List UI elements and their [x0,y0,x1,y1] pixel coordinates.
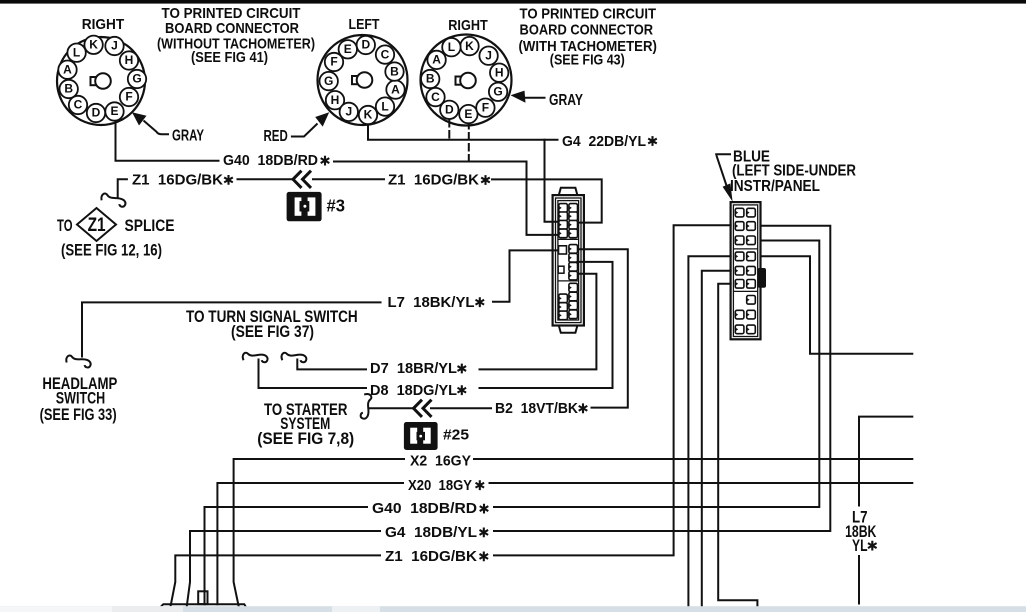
asterisk marks [224,136,876,561]
color labels [172,92,856,195]
svg-text:L7 18BK/YL: L7 18BK/YL [388,294,475,311]
connector circle left (red) [318,35,408,125]
svg-text:B2 18VT/BK: B2 18VT/BK [495,400,578,417]
wire X2 16GY [234,459,913,606]
wire L7 18BK right side vertical [859,417,912,604]
svg-text:X20 18GY: X20 18GY [408,477,472,494]
svg-text:RED: RED [264,128,288,145]
wire G40 18DB/RD lower label run to blue connector right row B [205,241,820,605]
wire X20 18GY [217,483,912,604]
wire blue connector left row D down to bottom edge [688,256,730,612]
svg-text:F: F [482,100,489,114]
center connector terminals section B [558,245,577,280]
svg-text:L: L [73,45,80,59]
svg-text:G4 18DB/YL: G4 18DB/YL [385,524,477,541]
wire blue connector right row C to right edge at y354 [761,256,913,354]
svg-text:Z1 16DG/BK: Z1 16DG/BK [385,548,477,565]
svg-text:A: A [63,62,72,76]
wire G40 18DB/RD from conn1 pin E down then right [116,121,219,161]
grommet #3 [287,192,322,221]
top border bar [0,0,1026,4]
svg-text:H: H [495,65,504,79]
svg-text:G4 22DB/YL: G4 22DB/YL [562,133,646,150]
svg-text:(SEE FIG 43): (SEE FIG 43) [550,51,625,68]
wire Z1 16DG/BK lower label run to blue connector left row A [171,225,731,606]
svg-text:G40 18DB/RD: G40 18DB/RD [372,500,477,517]
wire G4 22DB/YL from conn2 pin K [368,125,558,140]
svg-text:L: L [448,40,455,54]
keyhole center conn2 [352,72,372,88]
center connector terminals section A [559,204,578,238]
svg-text:E: E [110,104,118,118]
center connector body [553,188,584,333]
grommet #25 [404,422,438,450]
annotation headlamp switch [40,374,118,424]
svg-text:J: J [345,105,352,119]
svg-text:X2 16GY: X2 16GY [410,453,471,470]
svg-text:GRAY: GRAY [549,92,584,109]
wire blue connector left row F down then right [718,284,757,607]
svg-text:INSTR/PANEL: INSTR/PANEL [730,178,820,195]
svg-text:A: A [391,82,400,96]
leader arrow GRAY conn1 [132,112,169,134]
svg-text:GRAY: GRAY [172,128,204,145]
svg-text:(SEE FIG 41): (SEE FIG 41) [191,49,268,66]
svg-text:TO: TO [57,217,73,235]
svg-text:A: A [432,53,441,67]
connector circle right (without tach) [57,37,145,125]
annotation starter system [257,401,354,448]
svg-text:K: K [364,108,373,122]
svg-text:E: E [464,107,472,121]
svg-text:G40 18DB/RD: G40 18DB/RD [223,152,318,169]
blue connector side tab [758,268,766,288]
svg-text:B: B [426,72,435,86]
wire Z1 second label to center connector right pin row3 [492,179,602,222]
svg-text:C: C [74,98,83,112]
svg-text:H: H [125,53,134,67]
svg-text:Z1 16DG/BK: Z1 16DG/BK [132,171,223,188]
svg-text:C: C [431,90,440,104]
svg-text:C: C [381,47,390,61]
pins conn3 [421,37,508,123]
break curl end of Z1 bracket [100,193,126,207]
blue connector body [731,202,761,339]
svg-text:F: F [125,90,132,104]
wire L7 right run up into center connector middle-left square [493,250,560,301]
wire Z1 left bracket to splice [118,179,127,197]
svg-text:D: D [92,106,101,120]
svg-text:K: K [89,38,98,52]
break curl D7 wire top [282,353,307,362]
wire Z1 between label and chevron [238,178,292,180]
svg-text:RIGHT: RIGHT [448,17,488,34]
svg-text:SPLICE: SPLICE [125,217,175,235]
svg-text:H: H [331,93,340,107]
splice diamond Z1 [77,208,116,241]
break squiggle B2 wire left end [360,394,371,419]
wire G4 18DB/YL lower label run to blue connector right row A [187,226,831,606]
svg-text:(SEE FIG 7,8): (SEE FIG 7,8) [257,430,354,448]
svg-text:Z1: Z1 [88,214,106,236]
svg-text:BOARD CONNECTOR: BOARD CONNECTOR [165,20,299,37]
wire Z1 chevron to second label [313,178,384,180]
svg-text:(SEE FIG 37): (SEE FIG 37) [231,322,314,341]
svg-text:RIGHT: RIGHT [82,16,125,33]
svg-text:(SEE FIG 12, 16): (SEE FIG 12, 16) [61,242,162,260]
svg-text:TO PRINTED CIRCUIT: TO PRINTED CIRCUIT [520,6,657,23]
svg-text:G: G [324,74,333,88]
svg-text:G: G [132,72,141,86]
svg-text:B: B [390,64,399,78]
svg-text:J: J [485,48,492,62]
svg-text:K: K [465,39,474,53]
blue connector terminals [735,208,755,333]
svg-text:#3: #3 [327,195,346,215]
inline connector chevron on B2 wire [414,400,432,417]
svg-text:#25: #25 [443,426,469,443]
pins conn1 [58,36,146,123]
annotation to Z1 splice [57,217,175,259]
svg-text:BOARD CONNECTOR: BOARD CONNECTOR [520,22,654,39]
svg-text:D: D [445,103,454,117]
wire D7 18BR/YL [297,274,596,370]
connector titles [82,16,488,34]
bottom connector shell [156,604,249,612]
bottom gray bar [0,606,1026,612]
wire blue connector left row E down to bottom edge [702,271,731,612]
wire D8 18DG/YL [259,262,613,388]
wire G40 continues to center connector left pin row4 [334,162,561,235]
leader arrow RED conn2 [291,112,329,136]
svg-text:YL: YL [852,536,868,555]
svg-text:Z1 16DG/BK: Z1 16DG/BK [388,172,479,189]
dashed wire conn3 pin D to G4 line [448,120,450,139]
svg-text:LEFT: LEFT [349,16,380,33]
dashed wire conn3 pin E to G40 line [468,122,470,161]
connector circle right (with tach) [421,35,512,126]
keyhole center conn3 [456,73,476,89]
wire code labels [132,133,646,565]
svg-text:E: E [344,42,352,56]
svg-text:L: L [381,99,388,113]
svg-text:F: F [330,55,337,69]
svg-text:D8 18DG/YL: D8 18DG/YL [370,382,457,399]
svg-text:D7 18BR/YL: D7 18BR/YL [370,360,457,377]
svg-text:D: D [361,38,370,52]
center connector terminals section C [559,283,578,319]
break curl D8 wire top [243,353,268,362]
wire G4 branch down into center connector left row3 [545,140,562,222]
caption without tachometer [157,5,315,66]
caption with tachometer [519,6,657,69]
keyhole center conn1 [91,73,111,89]
wire B2 18VT/BK [370,249,628,408]
wire L7 18BK/YL left run to headlamp switch [82,302,381,356]
break curl headlamp switch wire end [66,355,92,368]
inline connector chevron on Z1 wire [293,171,311,188]
leader arrow GRAY conn3 [511,91,546,103]
leader arrow BLUE connector [715,154,732,202]
pins conn2 [320,36,405,124]
bottom connector latch [198,591,207,604]
annotation turn signal switch [186,307,358,341]
svg-text:B: B [64,82,73,96]
svg-text:(SEE FIG 33): (SEE FIG 33) [40,405,117,424]
svg-text:G: G [493,85,502,99]
svg-text:J: J [111,39,118,53]
